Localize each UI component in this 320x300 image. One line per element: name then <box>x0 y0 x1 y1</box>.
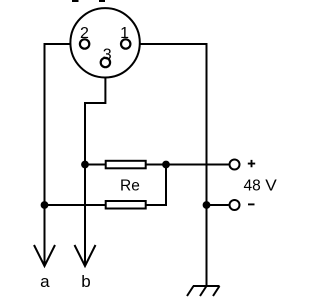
terminal + <box>230 160 240 170</box>
junction node a rail / bottom resistor <box>41 201 49 209</box>
wire left rail to arrow a <box>44 205 46 266</box>
wire bottom resistor left lead <box>45 204 107 206</box>
junction node right rail / - terminal <box>203 201 211 209</box>
arrow a head <box>34 245 55 266</box>
wire top resistor left lead <box>85 164 106 166</box>
resistor Re (top) <box>106 161 146 169</box>
pin 3 contact <box>101 58 110 67</box>
svg-text:2: 2 <box>80 25 89 42</box>
svg-text:1: 1 <box>120 25 129 42</box>
pin 1 contact <box>121 39 130 48</box>
junction node resistors right branch <box>162 161 170 169</box>
svg-text:a: a <box>40 272 50 291</box>
wire right branch joining resistors <box>146 165 166 206</box>
terminal - <box>230 200 240 210</box>
cropped text remnant right <box>99 0 105 2</box>
svg-text:3: 3 <box>103 46 112 63</box>
svg-text:48: 48 <box>244 177 261 194</box>
svg-text:Re: Re <box>120 177 140 194</box>
connector shell <box>70 8 139 77</box>
label - <box>248 203 255 205</box>
wire pin2 to left rail down to node a <box>45 44 81 205</box>
cropped text remnant left <box>72 0 79 2</box>
wire top resistor right lead to + terminal <box>146 164 229 166</box>
resistor Re (bottom) <box>106 201 146 209</box>
label + <box>248 160 255 167</box>
wire - terminal lead <box>207 204 229 206</box>
svg-text:V: V <box>265 177 277 194</box>
wire pin1 to right rail down to ground <box>131 44 207 286</box>
wire pin3 jog down-left <box>85 67 105 165</box>
pin 2 contact <box>80 39 89 48</box>
svg-text:b: b <box>81 272 90 291</box>
wire pin3 rail to arrow b <box>84 165 86 266</box>
arrow b head <box>75 245 96 266</box>
ground <box>187 286 220 296</box>
junction node pin3 rail / top resistor <box>81 161 89 169</box>
